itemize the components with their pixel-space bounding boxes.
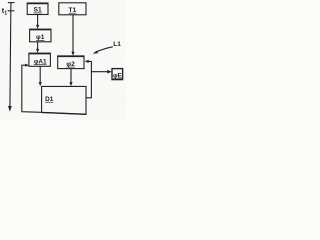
svg-text:S1: S1 <box>34 7 42 14</box>
wire phi2 to D1 <box>69 69 72 87</box>
wire S1 to phi1 <box>36 15 39 30</box>
wire T1 to phi2 <box>71 15 74 56</box>
svg-text:T1: T1 <box>69 7 77 14</box>
wire phi1 to phiA1 <box>36 42 39 53</box>
svg-text:φ1: φ1 <box>36 34 45 41</box>
block S1 <box>27 3 48 15</box>
svg-text:L1: L1 <box>113 41 121 48</box>
block phiE <box>112 69 123 80</box>
label L1 leader arrow <box>93 41 122 54</box>
wire to phiE <box>91 70 111 74</box>
time axis t1 <box>8 2 15 112</box>
label t1 <box>2 6 7 17</box>
svg-text:φE: φE <box>113 72 123 79</box>
feedback wire D1 to phi2 <box>85 60 92 98</box>
feedback wire D1 to phiA1 <box>22 64 42 113</box>
block phi1 <box>30 29 51 42</box>
block D1 <box>42 86 86 114</box>
svg-text:D1: D1 <box>45 96 54 103</box>
svg-text:φ2: φ2 <box>66 61 75 68</box>
block T1 <box>59 3 86 15</box>
block phiA1 <box>29 53 51 66</box>
block phi2 <box>58 56 84 69</box>
wire phiA1 to D1 <box>39 67 42 87</box>
svg-text:φA1: φA1 <box>34 58 47 65</box>
